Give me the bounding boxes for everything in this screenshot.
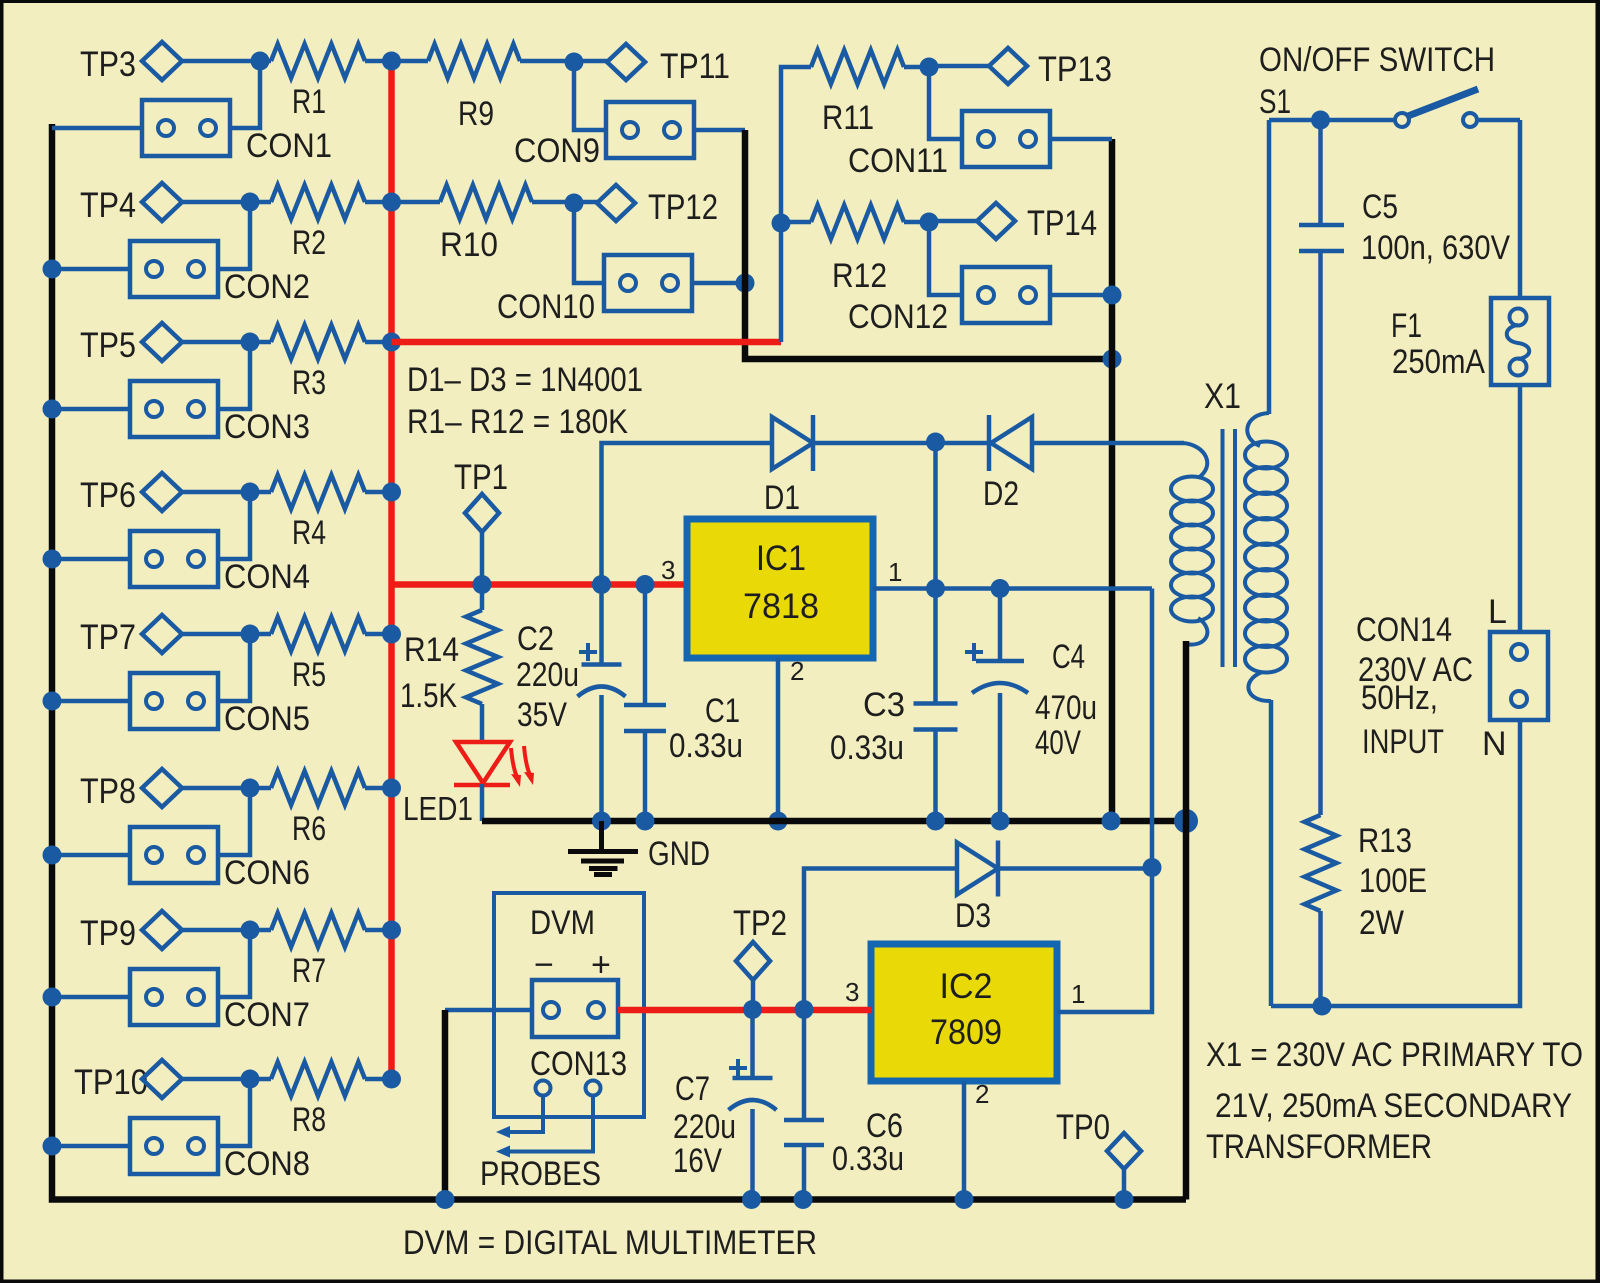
test point TP10 [74,1060,182,1102]
diode D2 [983,415,1032,513]
test point TP14 [929,203,1097,243]
resistor R1 [260,44,391,121]
svg-text:0.33u: 0.33u [669,727,743,765]
svg-text:TP2: TP2 [733,904,787,943]
wire black CON13 to ground [442,1010,449,1200]
node red rail junction [382,921,401,940]
node TP7 junction [218,625,260,702]
resistor R13 [1305,815,1428,1006]
node ground bus junction [43,260,62,279]
svg-text:100n, 630V: 100n, 630V [1361,229,1510,267]
node transformer gnd junction [1174,809,1198,833]
wire [181,928,250,933]
wire [181,340,250,345]
svg-text:CON2: CON2 [224,268,310,306]
connector CON4 [130,531,310,596]
node IC1 pin2 gnd junction [769,812,788,831]
pin 1 label [888,557,902,587]
node TP2 junction [743,1000,762,1019]
svg-text:CON10: CON10 [497,288,595,326]
wire [813,441,935,446]
connector CON7 [130,969,310,1034]
node red rail junction [382,52,401,71]
connector CON13 [530,980,627,1083]
node TP6 junction [218,483,260,560]
resistor R11 [811,50,929,137]
pin 3 label [661,555,675,585]
svg-text:3: 3 [845,977,859,1007]
svg-text:50Hz,: 50Hz, [1361,679,1438,717]
node R12 feed junction [772,214,791,233]
node TP1 junction [473,575,492,594]
node ground bus junction [43,692,62,711]
note switch [1259,41,1495,79]
wire [1518,120,1523,298]
node R13 bottom junction [1313,997,1332,1016]
svg-text:7809: 7809 [930,1013,1002,1052]
svg-text:TP12: TP12 [648,188,718,227]
resistor R14 [400,584,498,744]
wire red rail to IC1 pin 3 [392,581,688,588]
pin 2 label [975,1079,989,1109]
node gnd junction C1 [636,812,655,831]
node black return gnd junction [1102,812,1121,831]
svg-text:R13: R13 [1358,822,1412,860]
node TP0 junction [1115,1190,1134,1209]
svg-text:INPUT: INPUT [1362,723,1444,761]
svg-text:2: 2 [975,1079,989,1109]
diode D3 [955,841,998,936]
wire [1050,293,1112,298]
wire black return from CON9 [745,130,1112,359]
transformer X1 label [1204,377,1241,416]
wire ground bus [482,818,1186,825]
capacitor C4 [965,588,1097,821]
svg-text:X1 = 230V AC PRIMARY TO: X1 = 230V AC PRIMARY TO [1206,1036,1583,1074]
svg-text:D1– D3 = 1N4001: D1– D3 = 1N4001 [407,361,643,399]
node TP9 junction [218,921,260,998]
resistor R3 [250,325,391,402]
wire D3 anode riser [804,869,957,1010]
probe terminals [536,1081,601,1096]
svg-text:CON1: CON1 [246,127,332,165]
svg-text:C4: C4 [1052,638,1085,676]
wire [181,786,250,791]
capacitor C6 [784,1010,904,1200]
svg-text:C5: C5 [1362,188,1398,226]
node ground bus junction [43,1137,62,1156]
node C2 junction [592,575,611,594]
node ground bus junction [43,400,62,419]
node red rail junction [382,625,401,644]
note DVM [403,1224,817,1262]
op-amp IC2 7809 regulator [871,944,1057,1081]
transformer X1 secondary winding [1171,443,1213,645]
connector CON3 [130,381,310,446]
svg-text:2W: 2W [1359,904,1404,942]
node IC2 pin2 junction [955,1190,974,1209]
svg-text:R12: R12 [832,257,887,295]
node C7 gnd junction [742,1190,761,1209]
wire [1050,137,1112,142]
svg-text:C1: C1 [705,692,740,730]
svg-text:TP13: TP13 [1038,50,1112,89]
capacitor C7 [673,1010,777,1200]
svg-text:CON13: CON13 [530,1045,627,1083]
connector CON6 [130,827,310,892]
wire IC1 pin 1 output [873,586,1152,591]
svg-text:3: 3 [661,555,675,585]
svg-text:100E: 100E [1359,862,1427,900]
svg-text:TP10: TP10 [74,1063,148,1102]
connector CON5 [130,673,310,738]
wire [181,59,260,64]
resistor R2 [250,185,391,262]
wire [935,441,989,446]
svg-text:CON3: CON3 [224,408,310,446]
svg-text:L: L [1488,593,1507,631]
test point TP0 [1056,1108,1141,1200]
wire red CON13 to IC2 pin 3 [618,1007,871,1014]
svg-text:CON4: CON4 [224,558,310,596]
capacitor C2 [516,584,626,821]
wire [181,1077,250,1082]
node C3 top junction [926,579,945,598]
node C4 top junction [991,579,1010,598]
connector CON12 [848,267,1050,336]
resistor R9 [392,44,575,133]
svg-text:TP8: TP8 [80,772,136,811]
svg-text:CON7: CON7 [224,996,310,1034]
node CON10 black bus junction [736,274,755,293]
svg-text:R1– R12 = 180K: R1– R12 = 180K [407,403,628,441]
test point TP1 [454,458,508,584]
node C1 junction [636,575,655,594]
svg-text:TP1: TP1 [454,458,508,497]
svg-text:R1: R1 [292,83,326,121]
wire [52,126,142,131]
wire [181,632,250,637]
wire D1 anode riser [602,443,773,584]
svg-text:0.33u: 0.33u [830,729,904,767]
svg-text:1.5K: 1.5K [400,677,457,715]
svg-text:R2: R2 [292,224,326,262]
pin 3 label [845,977,859,1007]
test point TP2 [733,904,787,1010]
node TP5 junction [218,333,260,410]
note X1 line2 [1215,1087,1572,1125]
pin 2 label [790,656,804,686]
svg-text:1: 1 [1071,979,1085,1009]
svg-text:R5: R5 [292,656,326,694]
svg-text:R9: R9 [458,95,494,133]
transformer X1 core [1223,429,1236,667]
connector CON1 [142,100,332,165]
resistor R5 [250,617,391,694]
wire [52,853,130,858]
svg-text:CON5: CON5 [224,700,310,738]
svg-text:TP14: TP14 [1027,204,1097,243]
note diodes [407,361,643,399]
capacitor C5 [1299,120,1510,815]
svg-text:LED1: LED1 [403,790,473,827]
wire [52,407,130,412]
wire IC1 pin 2 ground [776,658,781,821]
test point TP13 [929,48,1112,89]
wire [52,1144,130,1149]
note resistors [407,403,628,441]
svg-text:R14: R14 [404,631,459,669]
node TP13 junction [920,58,963,140]
svg-text:IC1: IC1 [756,539,806,578]
node TP14 junction [920,213,963,296]
svg-text:D1: D1 [764,479,800,517]
svg-text:TP4: TP4 [80,186,136,225]
node red rail junction [382,333,401,352]
wire [694,128,745,133]
node TP11 junction [565,53,607,131]
svg-text:0.33u: 0.33u [832,1140,904,1178]
op-amp IC1 7818 regulator [687,519,873,658]
node red rail junction [382,193,401,212]
probe leads [480,1095,601,1193]
test point TP9 [80,911,182,953]
polarity labels [534,946,611,984]
node C6 top junction [795,1000,814,1019]
fuse F1 [1391,298,1549,385]
switch S1 [1259,83,1520,127]
resistor R10 [392,185,575,264]
resistor R6 [250,771,391,848]
svg-text:R7: R7 [292,952,326,990]
resistor R12 [781,205,929,295]
svg-text:R4: R4 [292,514,326,552]
wire S1 to primary [1267,120,1272,414]
wire CON13 negative [445,1008,532,1013]
svg-text:R3: R3 [292,364,326,402]
svg-text:X1: X1 [1204,377,1241,416]
meter DVM box [494,893,644,1117]
wire D3 cathode [999,866,1152,871]
LED LED1 [403,742,534,827]
node C6 gnd junction [794,1190,813,1209]
node gnd junction C2 [592,812,611,831]
svg-text:R11: R11 [822,99,874,137]
transformer X1 primary winding [1245,413,1287,701]
node TP10 junction [218,1070,260,1147]
node red rail junction [382,1070,401,1089]
wire rectifier node down [933,442,938,589]
node C4 gnd junction [991,812,1010,831]
node ground bus junction [43,550,62,569]
wire red output rail vertical [388,61,395,1080]
test point TP8 [80,769,182,811]
svg-text:16V: 16V [673,1142,722,1180]
svg-text:S1: S1 [1259,83,1291,121]
test point TP3 [80,42,182,84]
connector CON2 [130,241,310,306]
svg-text:CON12: CON12 [848,298,948,336]
capacitor C1 [624,584,743,821]
wire [1518,385,1523,632]
svg-text:IC2: IC2 [940,967,993,1006]
svg-text:F1: F1 [1391,307,1422,345]
wire [52,557,130,562]
resistor R4 [250,475,391,552]
node bottom bus junction [436,1190,455,1209]
note X1 line3 [1206,1128,1432,1166]
connector CON10 [497,255,692,326]
wire black secondary to ground [1183,641,1190,1200]
node rectifier junction [926,433,945,452]
svg-text:N: N [1482,725,1507,763]
connector CON14 [1356,593,1548,763]
node TP12 junction [565,194,605,284]
node ground bus junction [43,988,62,1007]
wire IC2 pin 2 ground [962,1081,967,1200]
svg-text:C2: C2 [517,620,554,658]
wire red rail branch to R11/R12 [392,339,782,346]
svg-text:TP9: TP9 [80,914,136,953]
svg-text:TP3: TP3 [80,45,136,84]
svg-text:CON6: CON6 [224,854,310,892]
wire [181,490,250,495]
svg-text:TP7: TP7 [80,618,136,657]
wire black return CON11/CON12 [1109,139,1116,821]
svg-text:R6: R6 [292,810,326,848]
svg-text:220u: 220u [516,656,579,694]
node black return junction [1103,350,1122,369]
node D3 cathode junction [1143,858,1162,877]
test point TP11 [574,44,730,86]
note X1 line1 [1206,1036,1583,1074]
test point TP6 [80,473,182,515]
wire [52,267,130,272]
svg-text:2: 2 [790,656,804,686]
wire secondary to D2 [1032,441,1184,446]
svg-text:C3: C3 [863,686,905,724]
svg-text:CON9: CON9 [514,132,600,170]
node red rail junction [382,779,401,798]
svg-text:CON11: CON11 [848,142,948,180]
wire IC2 pin 1 output [1057,589,1152,1013]
svg-text:TP11: TP11 [660,47,730,86]
svg-text:ON/OFF SWITCH: ON/OFF SWITCH [1259,41,1495,79]
svg-text:D3: D3 [955,897,991,935]
wire [692,281,745,286]
node TP3 junction [230,52,270,129]
svg-text:CON14: CON14 [1356,611,1452,649]
node TP8 junction [218,779,260,856]
svg-text:CON8: CON8 [224,1145,310,1183]
wire primary bottom lead [1269,700,1274,1006]
node C3 gnd junction [926,812,945,831]
svg-text:PROBES: PROBES [480,1155,601,1193]
svg-text:7818: 7818 [743,587,819,626]
svg-text:470u: 470u [1035,689,1097,727]
svg-text:35V: 35V [517,696,567,734]
svg-text:R10: R10 [440,226,498,264]
wire left ground bus [52,124,1186,1200]
connector CON9 [514,102,694,170]
node S1 C5 junction [1311,111,1330,130]
svg-text:TP0: TP0 [1056,1108,1110,1147]
resistor R7 [250,913,391,990]
svg-text:250mA: 250mA [1392,343,1485,381]
svg-text:DVM: DVM [530,904,595,942]
wire [52,699,130,704]
resistor R8 [250,1062,391,1139]
wire [181,200,250,205]
svg-text:220u: 220u [673,1108,736,1146]
svg-text:D2: D2 [983,475,1019,513]
pin 1 label [1071,979,1085,1009]
wire [52,995,130,1000]
svg-text:TP6: TP6 [80,476,136,515]
diode D1 [764,415,813,517]
connector CON8 [130,1118,310,1183]
wire CON14 to bottom [1323,720,1520,1006]
svg-text:1: 1 [888,557,902,587]
node TP4 junction [218,193,260,270]
wire LED1 cathode [480,784,485,821]
wire feed to R11/R12 [781,67,811,342]
node red rail junction [382,483,401,502]
wire primary bottom [1271,1004,1323,1009]
svg-text:R8: R8 [292,1101,326,1139]
node ground bus junction [43,846,62,865]
test point TP4 [80,183,182,225]
svg-text:40V: 40V [1035,724,1081,762]
svg-text:TP5: TP5 [80,326,136,365]
svg-text:TRANSFORMER: TRANSFORMER [1206,1128,1432,1166]
node CON12 black bus junction [1103,286,1122,305]
ground GND symbol [568,821,710,875]
test point TP7 [80,615,182,657]
test point TP5 [80,323,182,365]
capacitor C3 [830,588,958,821]
connector CON11 [848,111,1050,180]
test point TP12 [574,185,718,227]
svg-text:DVM = DIGITAL MULTIMETER: DVM = DIGITAL MULTIMETER [403,1224,817,1262]
svg-text:21V, 250mA SECONDARY: 21V, 250mA SECONDARY [1215,1087,1572,1125]
svg-text:C7: C7 [675,1070,710,1108]
svg-text:GND: GND [648,835,710,873]
